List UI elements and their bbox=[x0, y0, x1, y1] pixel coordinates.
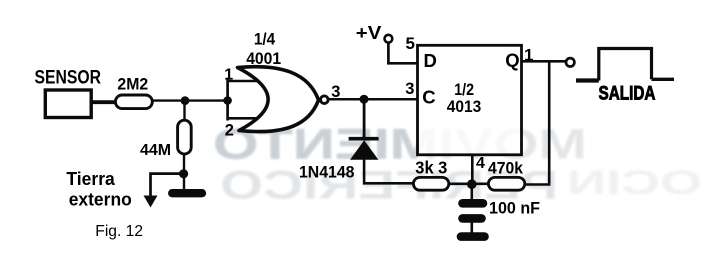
output terminal circle bbox=[566, 58, 574, 66]
flip-flop U2 1/2 4013 box bbox=[418, 45, 522, 155]
node B junction dot bbox=[360, 95, 369, 104]
node C junction dot bbox=[467, 179, 477, 189]
svg-text:1N4148: 1N4148 bbox=[299, 163, 355, 181]
label 470k bbox=[488, 159, 523, 178]
label C bbox=[422, 86, 435, 107]
label 44M bbox=[140, 142, 171, 159]
wire Q output bbox=[521, 60, 566, 63]
+V terminal circle bbox=[385, 35, 393, 43]
output waveform right baseline bbox=[652, 78, 675, 81]
svg-text:C: C bbox=[422, 86, 435, 107]
ground node junction dot bbox=[179, 169, 188, 178]
wire +V to pin D bbox=[388, 43, 417, 64]
wire R3 to node C to R4 bbox=[449, 183, 488, 186]
pin label 1 bbox=[524, 46, 533, 65]
svg-text:D: D bbox=[424, 50, 437, 71]
svg-text:OCIN: OCIN bbox=[567, 164, 702, 202]
svg-text:3: 3 bbox=[405, 80, 414, 98]
svg-text:SALIDA: SALIDA bbox=[599, 84, 656, 105]
svg-text:externo: externo bbox=[69, 189, 132, 209]
watermark faint fragment bottom-right (mirrored) bbox=[567, 164, 702, 202]
feedback wire from Q down to R4 bbox=[525, 61, 549, 184]
external earth arrowhead bbox=[144, 196, 158, 208]
watermark show-through line 2 (mirrored) bbox=[220, 164, 558, 208]
svg-text:1/4: 1/4 bbox=[254, 31, 276, 49]
pin label 1 bbox=[224, 66, 233, 83]
pin label 5 bbox=[406, 34, 415, 53]
svg-text:100 nF: 100 nF bbox=[489, 198, 540, 217]
pin label 4 bbox=[476, 155, 485, 172]
wire R1 to node A bbox=[153, 99, 230, 101]
svg-text:2: 2 bbox=[225, 122, 234, 140]
label 3k 3 bbox=[415, 158, 447, 178]
wire diode anode to R3 bbox=[364, 159, 413, 183]
resistor R4 470k bbox=[488, 177, 524, 190]
svg-text:Fig. 12: Fig. 12 bbox=[95, 223, 143, 240]
output waveform pulse bbox=[599, 49, 652, 81]
svg-text:+V: +V bbox=[356, 23, 382, 43]
wire gate output to node B bbox=[329, 98, 417, 101]
svg-text:44M: 44M bbox=[140, 142, 171, 159]
svg-text:1/2: 1/2 bbox=[454, 80, 474, 99]
wire node C down to capacitor bbox=[470, 184, 473, 200]
wire node B down to diode bbox=[363, 99, 366, 139]
output waveform left baseline bbox=[576, 78, 599, 82]
resistor R2 44M bbox=[178, 120, 192, 154]
svg-text:4013: 4013 bbox=[447, 97, 482, 116]
pin label 2 bbox=[225, 122, 234, 140]
capacitor C1 top plate bbox=[463, 199, 484, 208]
pin label 3 at C input bbox=[405, 80, 414, 98]
NOR gate output bubble bbox=[321, 96, 329, 104]
diode D1 triangle bbox=[350, 140, 378, 160]
ground bar under capacitor bbox=[461, 232, 485, 241]
label 4001 bbox=[246, 50, 281, 68]
svg-text:Tierra: Tierra bbox=[66, 169, 115, 189]
svg-text:1: 1 bbox=[224, 66, 233, 83]
wire node A down to R2 bbox=[183, 101, 185, 120]
svg-text:4: 4 bbox=[476, 155, 485, 172]
svg-text:3k 3: 3k 3 bbox=[415, 158, 447, 178]
label externo bbox=[69, 189, 132, 209]
label Q bbox=[505, 50, 519, 71]
pin label 3 bbox=[331, 83, 340, 101]
capacitor C1 bottom plate bbox=[463, 214, 482, 223]
label +V bbox=[356, 23, 382, 43]
label 2M2 bbox=[117, 75, 148, 93]
wire sensor to R1 bbox=[92, 100, 115, 104]
label D bbox=[424, 50, 437, 71]
gate input stub pin 2 wire bbox=[227, 117, 258, 120]
wire R2 to ground node bbox=[183, 154, 185, 190]
svg-text:SENSOR: SENSOR bbox=[35, 68, 102, 89]
label Fig. 12 bbox=[95, 223, 143, 240]
gate input stub pin 1 wire bbox=[227, 80, 259, 83]
resistor R3 3k3 bbox=[413, 177, 448, 190]
label SENSOR bbox=[35, 68, 102, 89]
svg-text:Q: Q bbox=[505, 50, 519, 71]
label 100 nF bbox=[489, 198, 540, 217]
label 1/2 bbox=[454, 80, 474, 99]
svg-text:2M2: 2M2 bbox=[117, 75, 148, 93]
wire capacitor to ground bbox=[470, 219, 473, 233]
wire ground node to external earth arrow bbox=[151, 174, 185, 197]
label Tierra bbox=[66, 169, 115, 189]
watermark show-through line 1 (mirrored) bbox=[213, 121, 587, 169]
diode D1 1N4148 cathode bar bbox=[349, 137, 379, 141]
svg-text:5: 5 bbox=[406, 34, 415, 53]
NOR gate U1 1/4 4001 bbox=[238, 67, 319, 132]
label SALIDA bbox=[599, 84, 656, 105]
label 1N4148 bbox=[299, 163, 355, 181]
svg-text:470k: 470k bbox=[488, 159, 523, 178]
node A junction dot bbox=[181, 96, 190, 105]
label 1/4 bbox=[254, 31, 276, 49]
sensor box bbox=[45, 90, 91, 118]
node at gate input junction dot bbox=[223, 96, 232, 105]
resistor R1 2M2 bbox=[115, 95, 152, 109]
watermark line 1 darker left part (mirrored) bbox=[213, 121, 587, 169]
gate input bar wire bbox=[226, 78, 229, 121]
wire pin 4 down to node C bbox=[471, 155, 474, 184]
label 4013 bbox=[447, 97, 482, 116]
ground bar under R2 bbox=[172, 189, 202, 197]
